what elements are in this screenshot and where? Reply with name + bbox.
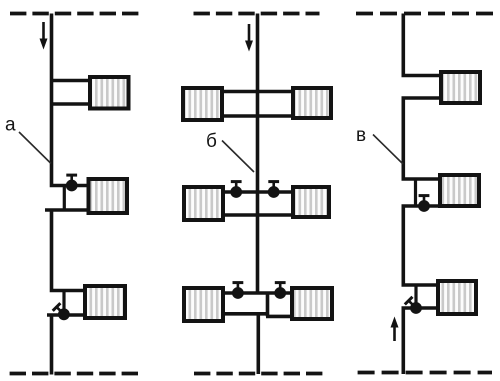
svg-text:б: б: [206, 131, 217, 152]
svg-text:а: а: [5, 115, 16, 136]
svg-text:в: в: [356, 125, 366, 146]
